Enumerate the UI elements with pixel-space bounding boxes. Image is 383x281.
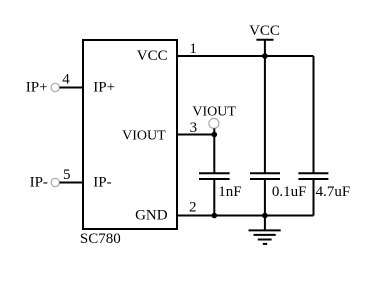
- wire pin1 VCC horizontal: [177, 55, 314, 57]
- value label 1nF: [218, 184, 241, 200]
- wire VIOUT stub: [213, 128, 215, 134]
- svg-text:1nF: 1nF: [218, 184, 241, 200]
- svg-text:3: 3: [190, 120, 198, 136]
- pin label GND inside IC: [135, 208, 168, 224]
- svg-text:IP-: IP-: [30, 175, 48, 191]
- svg-text:5: 5: [63, 167, 71, 183]
- svg-text:IP+: IP+: [26, 80, 48, 96]
- svg-text:1: 1: [189, 41, 197, 57]
- svg-text:0.1uF: 0.1uF: [272, 184, 307, 200]
- pin label VIOUT inside IC: [122, 128, 166, 143]
- wire pin4 IP+: [60, 87, 84, 89]
- wire VIOUT down to C1: [213, 135, 215, 173]
- value label 0.1uF: [272, 184, 307, 200]
- node VIOUT net label: [192, 105, 236, 120]
- node IP+ external net label: [26, 80, 48, 96]
- capacitor C2 0.1uF plates: [250, 173, 280, 179]
- wire pin3 VIOUT horizontal: [177, 134, 214, 136]
- terminal circle IP-: [51, 178, 59, 186]
- svg-text:VCC: VCC: [249, 23, 280, 39]
- node IP- external net label: [30, 175, 48, 191]
- svg-text:2: 2: [189, 199, 197, 215]
- pin number 1: [189, 41, 197, 57]
- value label 4.7uF: [316, 184, 351, 200]
- IC U1 name label SC780: [80, 231, 121, 247]
- pin number 5: [63, 167, 71, 183]
- capacitor C1 1nF plates: [199, 173, 230, 179]
- wire C2 bottom lead: [264, 179, 266, 216]
- junction VIOUT node: [212, 132, 218, 138]
- capacitor C3 4.7uF plates: [298, 173, 328, 179]
- svg-text:4.7uF: 4.7uF: [316, 184, 351, 200]
- junction VCC node: [262, 53, 268, 59]
- terminal circle VIOUT: [209, 118, 219, 128]
- pin label IP+ inside IC: [93, 80, 115, 96]
- pin label VCC inside IC: [137, 48, 168, 64]
- svg-text:SC780: SC780: [80, 231, 121, 247]
- wire right branch vertical to C3: [313, 56, 315, 173]
- ground: [249, 216, 281, 244]
- svg-text:VIOUT: VIOUT: [192, 105, 236, 120]
- svg-text:IP-: IP-: [93, 175, 111, 191]
- pin number 3: [190, 120, 198, 136]
- wire C1 bottom lead: [213, 179, 215, 216]
- svg-text:VCC: VCC: [137, 48, 168, 64]
- terminal circle IP+: [51, 83, 59, 91]
- junction C1 bottom node: [212, 213, 218, 219]
- IC U1 SC780 body: [83, 40, 177, 229]
- svg-text:4: 4: [62, 71, 70, 87]
- junction ground node: [262, 213, 268, 219]
- pin number 4: [62, 71, 70, 87]
- svg-text:VIOUT: VIOUT: [122, 128, 166, 143]
- wire pin5 IP-: [60, 182, 84, 184]
- wire C3 bottom lead: [313, 179, 315, 216]
- svg-text:IP+: IP+: [93, 80, 115, 96]
- pin label IP- inside IC: [93, 175, 111, 191]
- pin number 2: [189, 199, 197, 215]
- wire VCC vertical to C2: [264, 40, 266, 173]
- power symbol VCC bar: [256, 39, 273, 41]
- power symbol VCC label: [249, 23, 280, 39]
- svg-text:GND: GND: [135, 208, 168, 224]
- wire pin2 GND horizontal: [177, 215, 314, 217]
